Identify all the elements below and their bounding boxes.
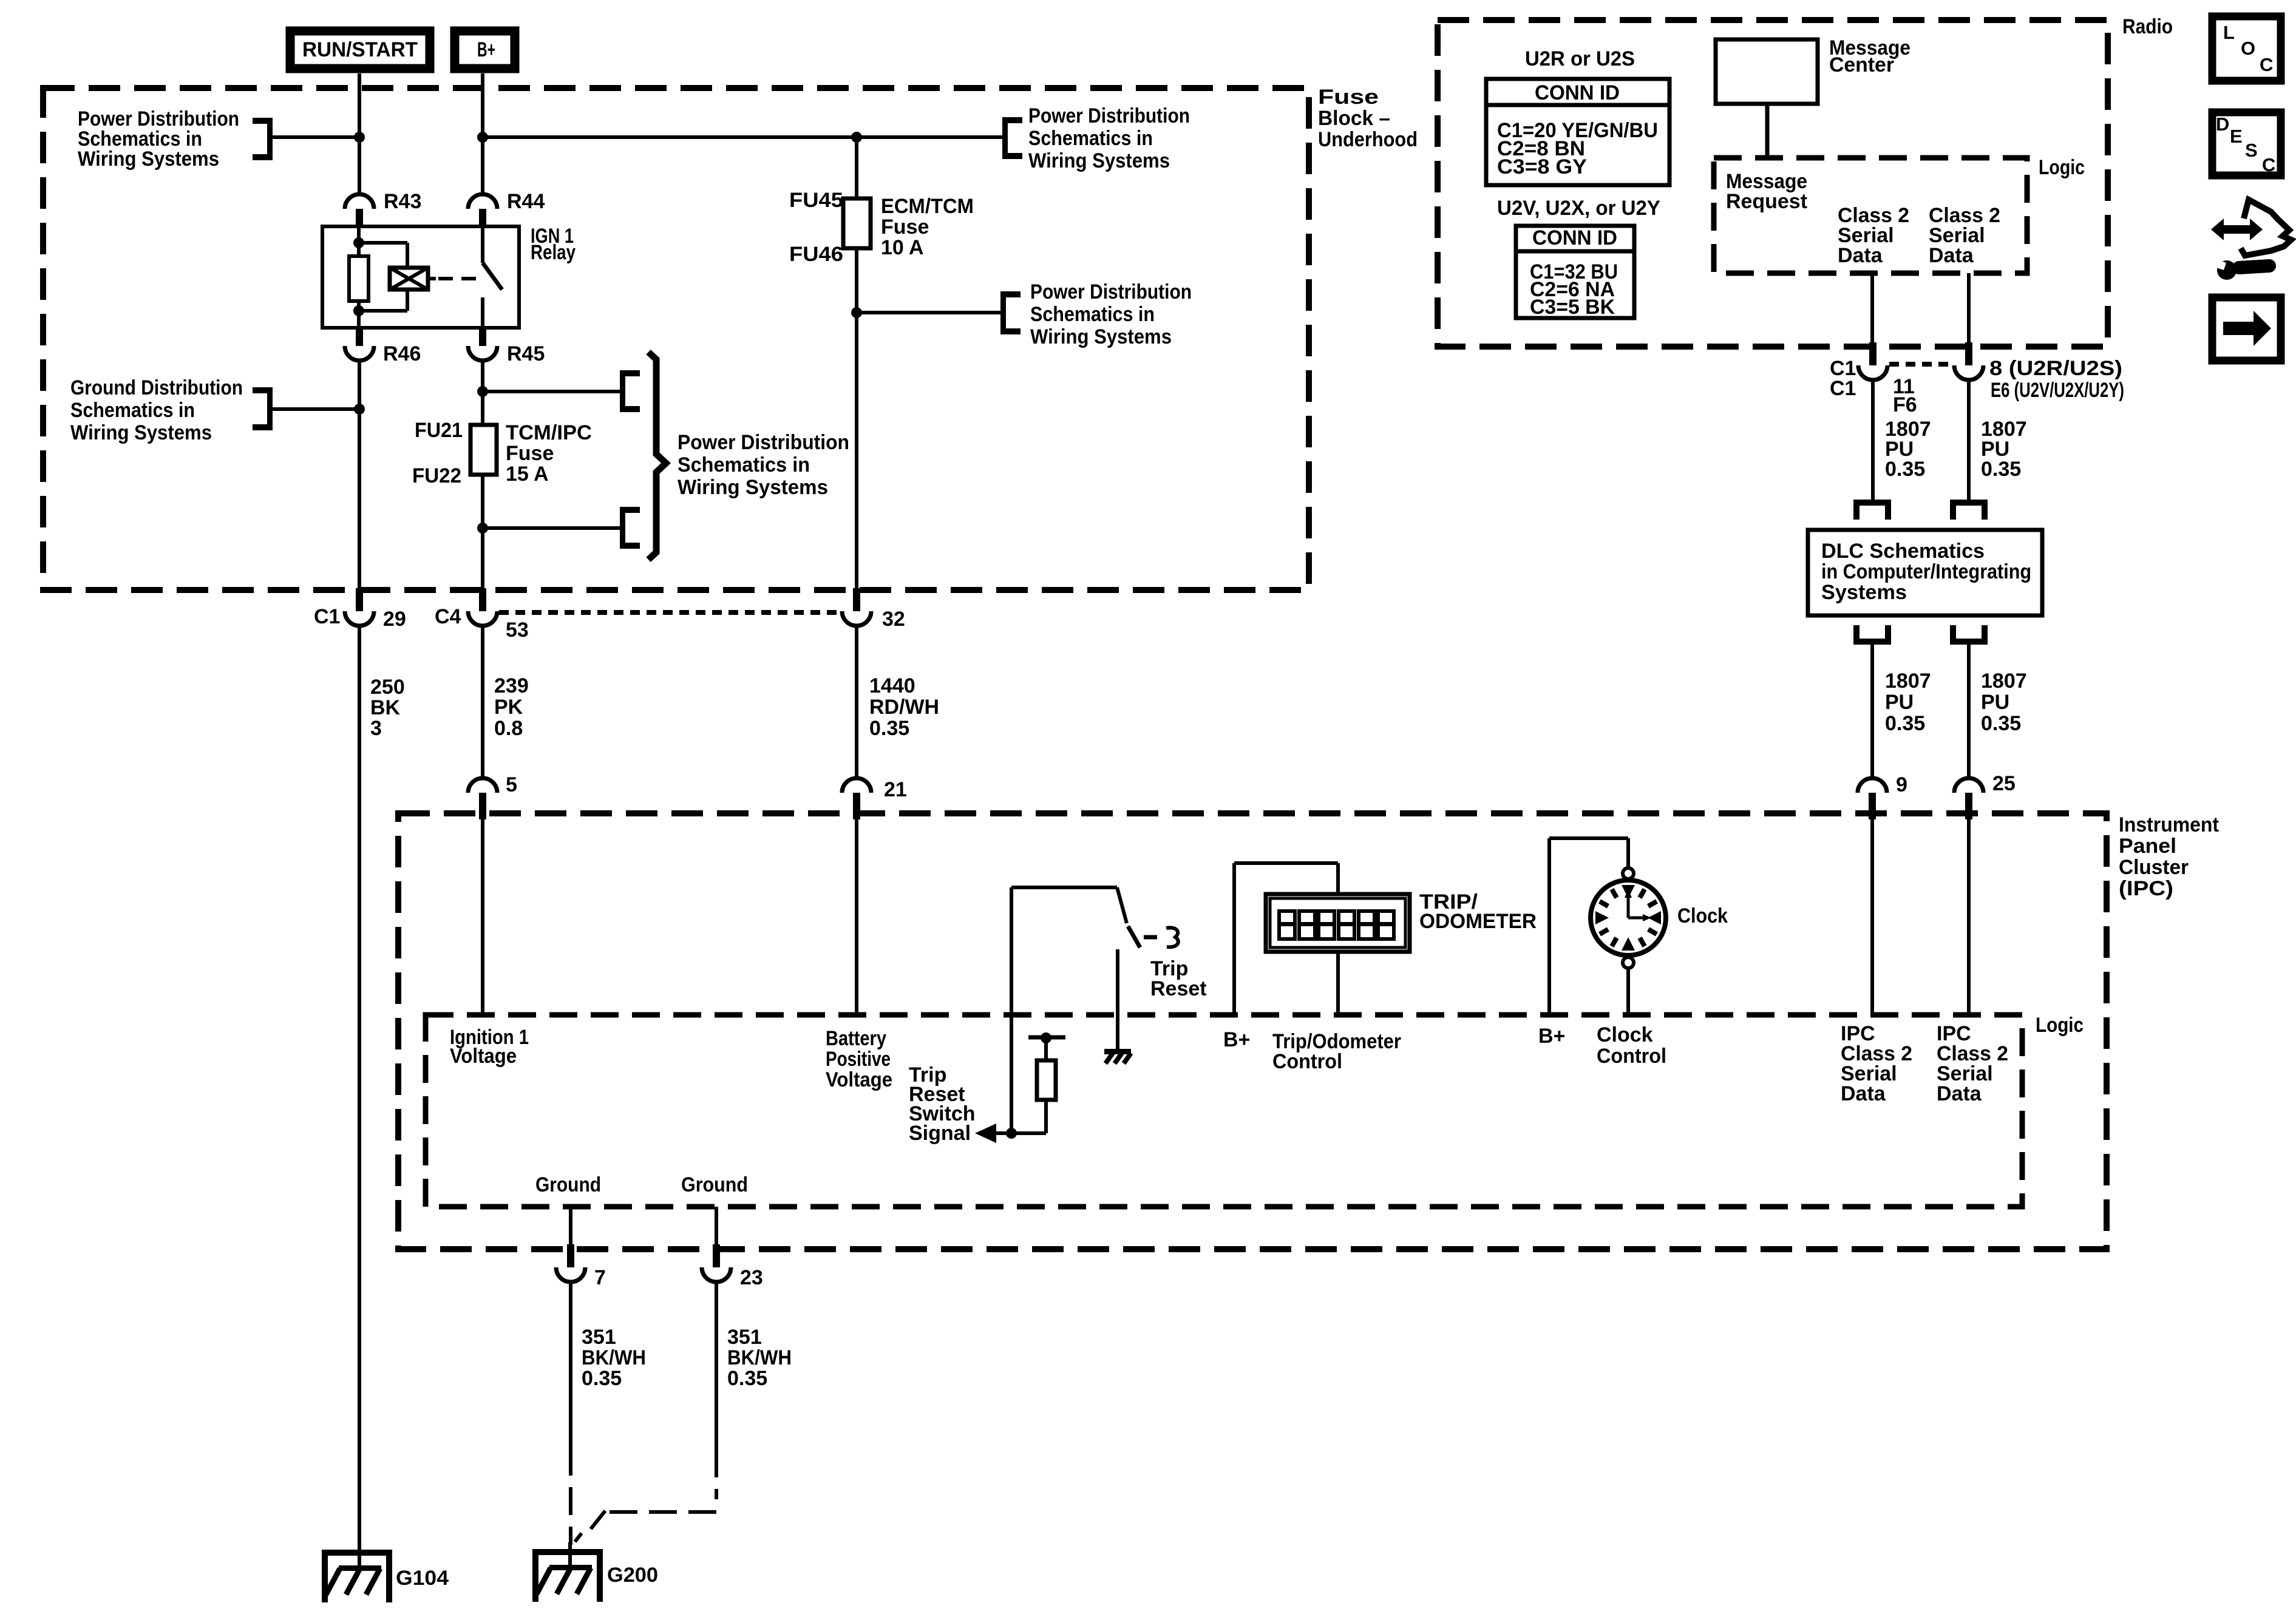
svg-text:239: 239 <box>494 674 529 697</box>
svg-text:5: 5 <box>506 773 517 796</box>
svg-text:B+: B+ <box>477 38 495 61</box>
svg-text:FU22: FU22 <box>412 464 461 487</box>
clock tick triangles <box>1622 885 1635 898</box>
wire class 2 to DLC right <box>1967 380 1971 500</box>
connector R44 <box>468 194 497 209</box>
svg-text:1807: 1807 <box>1885 670 1931 693</box>
svg-text:Request: Request <box>1726 190 1807 213</box>
node FU45 tap <box>851 132 862 143</box>
connector terminal 32 <box>853 588 860 611</box>
ground G200 <box>568 1542 572 1568</box>
svg-text:Data: Data <box>1929 244 1974 267</box>
curly brace power distribution group <box>648 352 666 560</box>
wire to left power distribution bracket <box>272 135 359 139</box>
svg-text:25: 25 <box>1992 772 2016 795</box>
svg-text:Voltage: Voltage <box>450 1045 517 1068</box>
svg-text:0.35: 0.35 <box>727 1367 767 1390</box>
message center box <box>1716 39 1818 104</box>
svg-text:Data: Data <box>1838 244 1883 267</box>
svg-text:Positive: Positive <box>826 1048 891 1071</box>
wire B+ feed trip/odometer <box>1232 863 1236 1015</box>
wire 351 BK/WH 0.35 left <box>569 1282 572 1448</box>
icon wrench <box>2239 266 2269 268</box>
svg-text:0.35: 0.35 <box>582 1367 622 1390</box>
wire to bracket upper right <box>483 390 620 393</box>
svg-text:Panel: Panel <box>2119 835 2176 858</box>
svg-text:1440: 1440 <box>869 674 915 697</box>
svg-text:0.35: 0.35 <box>1981 712 2021 735</box>
arrowhead trip reset switch signal <box>975 1124 996 1143</box>
ground chassis trip reset <box>1104 1049 1131 1054</box>
relay actuation dashed link <box>438 277 477 280</box>
svg-text:Cluster: Cluster <box>2119 856 2189 879</box>
svg-text:D: D <box>2216 114 2229 135</box>
svg-text:FU46: FU46 <box>789 243 843 266</box>
instrument panel cluster dashed box <box>398 813 2107 1249</box>
svg-text:Schematics in: Schematics in <box>70 399 195 422</box>
svg-text:G200: G200 <box>607 1564 658 1587</box>
relay coil branch node top <box>353 237 364 248</box>
svg-text:21: 21 <box>884 778 907 801</box>
svg-text:Block –: Block – <box>1318 107 1390 130</box>
svg-text:351: 351 <box>727 1326 762 1349</box>
wire B+ to relay R44 <box>481 73 484 194</box>
svg-text:ODOMETER: ODOMETER <box>1419 910 1537 933</box>
svg-text:FU21: FU21 <box>415 419 463 442</box>
svg-text:10 A: 10 A <box>881 236 924 259</box>
wire IPC class 2 serial data right <box>1967 817 1971 1015</box>
svg-text:RUN/START: RUN/START <box>302 38 418 61</box>
svg-text:0.35: 0.35 <box>1981 458 2021 481</box>
svg-text:C1: C1 <box>1830 377 1856 400</box>
svg-text:53: 53 <box>506 619 529 642</box>
odometer digit cell 5 <box>1359 911 1374 939</box>
svg-text:R45: R45 <box>507 342 545 365</box>
svg-text:U2R or U2S: U2R or U2S <box>1525 47 1635 70</box>
svg-text:(IPC): (IPC) <box>2119 877 2173 900</box>
radio logic dashed box <box>1714 158 2027 273</box>
wire FU22 down to connector C4 <box>481 475 484 593</box>
svg-text:Systems: Systems <box>1821 581 1907 604</box>
svg-text:Power Distribution: Power Distribution <box>678 431 849 454</box>
clock face <box>1591 880 1666 955</box>
bracket power distribution arm lower <box>620 507 625 549</box>
svg-text:L: L <box>2223 22 2235 43</box>
svg-text:0.35: 0.35 <box>1885 458 1925 481</box>
svg-text:23: 23 <box>740 1266 763 1289</box>
svg-text:Instrument: Instrument <box>2119 813 2219 836</box>
svg-text:0.8: 0.8 <box>494 717 523 740</box>
svg-text:Control: Control <box>1272 1050 1342 1073</box>
svg-text:PU: PU <box>1885 691 1914 714</box>
relay coil wires <box>359 241 407 245</box>
wire RUN/START to relay R43 <box>358 73 361 194</box>
connector C1 terminal 29 <box>356 588 363 611</box>
svg-text:9: 9 <box>1896 773 1907 796</box>
wire trip/odometer control <box>1336 952 1340 1015</box>
svg-text:Center: Center <box>1829 53 1894 76</box>
fuse block underhood dashed box <box>43 88 1309 590</box>
connector R43 <box>345 194 374 209</box>
svg-text:Data: Data <box>1937 1082 1982 1105</box>
wire to ground distribution bracket <box>272 407 359 411</box>
trip reset switch actuator curl <box>1166 927 1178 947</box>
svg-text:PU: PU <box>1981 691 2009 714</box>
svg-text:Reset: Reset <box>1150 977 1207 1000</box>
relay coil branch node bottom <box>353 305 364 316</box>
wire ground pin 7 <box>569 1207 572 1249</box>
svg-text:B+: B+ <box>1538 1025 1565 1048</box>
icon DESC box <box>2212 112 2281 175</box>
bracket left ground distribution <box>267 387 273 430</box>
icon signal squiggle <box>2241 200 2291 256</box>
relay switch contact <box>481 227 484 263</box>
DLC schematics box <box>1808 530 2042 615</box>
svg-text:8 (U2R/U2S): 8 (U2R/U2S) <box>1989 357 2122 380</box>
wire 250 BK 3 to G104 <box>358 624 361 1568</box>
node ground distribution tap <box>354 404 365 415</box>
wire B+ feed to fuse FU45 and right bracket <box>483 135 1002 139</box>
wire R45 to fuse FU21 <box>481 361 484 425</box>
svg-text:Voltage: Voltage <box>826 1068 892 1091</box>
connector R45 <box>479 328 486 346</box>
svg-text:Ground: Ground <box>535 1173 601 1196</box>
svg-text:E6 (U2V/U2X/U2Y): E6 (U2V/U2X/U2Y) <box>1991 379 2124 402</box>
icon right arrow box <box>2212 297 2281 361</box>
svg-text:ECM/TCM: ECM/TCM <box>881 195 974 218</box>
relay IGN 1 box <box>322 226 519 328</box>
connector C1 radio <box>1869 342 1877 365</box>
svg-text:C4: C4 <box>435 605 461 628</box>
svg-text:Wiring Systems: Wiring Systems <box>78 147 219 171</box>
dashed splice path from pin 23 to G200 <box>715 1449 718 1499</box>
connector terminal 9 <box>1858 778 1887 793</box>
connector terminal 23 <box>713 1244 720 1267</box>
bracket right power distribution 1 <box>1002 117 1008 159</box>
power feed box RUN/START <box>290 31 430 69</box>
svg-text:0.35: 0.35 <box>869 717 909 740</box>
svg-text:351: 351 <box>582 1326 616 1349</box>
connector dotted line C4 <box>499 610 841 615</box>
wire message center to logic <box>1765 106 1770 157</box>
svg-text:DLC Schematics: DLC Schematics <box>1821 540 1985 563</box>
wire to bracket power distribution 2 <box>857 311 1000 314</box>
svg-text:Wiring Systems: Wiring Systems <box>1030 325 1172 348</box>
icon bidirectional message arrow <box>2223 225 2250 234</box>
svg-text:7: 7 <box>594 1266 606 1289</box>
conn id table U2V/U2X/U2Y <box>1516 226 1634 318</box>
wire battery positive voltage into logic <box>855 817 858 1015</box>
wire 351 BK/WH 0.35 right <box>715 1282 718 1449</box>
clock hands <box>1627 897 1630 918</box>
svg-text:Logic: Logic <box>2039 156 2085 179</box>
wire DLC to IPC 9 <box>1870 645 1874 778</box>
relay resistor <box>357 227 361 256</box>
svg-text:Data: Data <box>1841 1082 1886 1105</box>
svg-text:C3=5 BK: C3=5 BK <box>1530 296 1615 319</box>
clock top terminal <box>1623 868 1634 879</box>
node power distribution tap on RUN/START wire <box>354 132 365 143</box>
svg-text:E: E <box>2230 126 2243 147</box>
svg-text:Signal: Signal <box>909 1122 971 1145</box>
svg-text:R44: R44 <box>507 190 545 213</box>
wire B+ feed clock <box>1547 838 1551 1015</box>
icon LOC box <box>2212 16 2281 81</box>
IPC logic dashed box <box>426 1015 2022 1207</box>
svg-text:Clock: Clock <box>1597 1023 1653 1046</box>
resistor trip reset pull-up <box>1044 1039 1048 1060</box>
svg-text:250: 250 <box>370 676 405 699</box>
svg-text:C: C <box>2260 54 2273 75</box>
inline connector top left <box>1853 500 1891 506</box>
svg-text:Ground Distribution: Ground Distribution <box>70 376 243 399</box>
svg-text:S: S <box>2245 140 2258 161</box>
wire clock control <box>1626 968 1630 1015</box>
svg-text:Fuse: Fuse <box>506 442 554 465</box>
wire DLC to IPC 25 <box>1967 645 1971 778</box>
svg-text:Ground: Ground <box>681 1173 748 1196</box>
odometer digit cell 6 <box>1378 911 1394 939</box>
svg-text:Battery: Battery <box>826 1027 886 1050</box>
svg-text:Radio: Radio <box>2122 15 2173 38</box>
radio dashed box <box>1438 20 2108 347</box>
svg-text:R46: R46 <box>383 342 421 365</box>
wire trip reset signal with junction <box>1006 1128 1017 1139</box>
odometer digit cell 4 <box>1339 911 1354 939</box>
wire radio class 2 serial data left <box>1870 273 1874 347</box>
wire R46 to ground distribution <box>358 361 361 593</box>
connector 8 radio <box>1965 342 1972 365</box>
clock tick marks <box>1640 889 1645 898</box>
svg-text:Wiring Systems: Wiring Systems <box>678 476 828 499</box>
trip reset switch dashed actuator link <box>1144 935 1158 940</box>
svg-text:Power Distribution: Power Distribution <box>1030 280 1192 303</box>
svg-text:Power Distribution: Power Distribution <box>1028 104 1190 127</box>
bracket right power distribution 2 <box>1000 291 1006 334</box>
odometer digit cell 3 <box>1319 911 1334 939</box>
svg-text:in Computer/Integrating: in Computer/Integrating <box>1821 560 2031 583</box>
trip/odometer inner display <box>1270 898 1405 947</box>
svg-text:Fuse: Fuse <box>881 215 929 239</box>
svg-text:15 A: 15 A <box>506 463 549 486</box>
relay coil box with X <box>390 268 428 290</box>
svg-text:CONN ID: CONN ID <box>1535 81 1620 104</box>
bracket left power distribution <box>267 118 273 160</box>
connector terminal 7 <box>567 1244 574 1267</box>
clock bottom terminal <box>1623 957 1634 968</box>
svg-text:Wiring Systems: Wiring Systems <box>1028 149 1170 172</box>
bracket power distribution arm upper <box>620 370 625 412</box>
svg-text:PK: PK <box>494 696 523 719</box>
svg-text:Schematics in: Schematics in <box>678 453 810 476</box>
trip/odometer display box <box>1266 894 1410 952</box>
svg-text:BK/WH: BK/WH <box>582 1346 646 1369</box>
connector R46 <box>356 328 363 346</box>
svg-text:Wiring Systems: Wiring Systems <box>70 421 212 444</box>
wire radio class 2 serial data right <box>1967 273 1971 347</box>
svg-text:Schematics in: Schematics in <box>1028 127 1153 150</box>
wire 1440 RD/WH 0.35 <box>855 626 858 778</box>
svg-text:Underhood: Underhood <box>1318 128 1418 151</box>
svg-text:Schematics in: Schematics in <box>1030 303 1155 326</box>
connector terminal 21 <box>842 778 871 793</box>
wire FU46 down to connector 32 <box>855 248 858 593</box>
svg-text:C: C <box>2262 154 2275 175</box>
node power distribution tap lower <box>477 523 488 534</box>
odometer digit cell 2 <box>1299 911 1315 939</box>
power feed box B+ <box>455 31 515 69</box>
connector terminal 25 <box>1954 778 1983 793</box>
connector dotted line radio <box>1889 362 1952 367</box>
wire IPC class 2 serial data left <box>1870 817 1874 1015</box>
wire to bracket lower right <box>483 526 620 530</box>
svg-text:Clock: Clock <box>1677 904 1728 927</box>
svg-text:BK/WH: BK/WH <box>727 1346 792 1369</box>
svg-text:Logic: Logic <box>2036 1014 2084 1037</box>
svg-text:RD/WH: RD/WH <box>869 696 939 719</box>
svg-text:29: 29 <box>383 608 406 631</box>
svg-text:Control: Control <box>1597 1045 1666 1068</box>
fuse FU45/FU46 ECM/TCM 10A <box>843 198 871 248</box>
inline connector bottom left <box>1853 639 1891 645</box>
svg-text:C1: C1 <box>314 605 340 628</box>
svg-text:R43: R43 <box>384 190 421 213</box>
svg-text:U2V, U2X, or U2Y: U2V, U2X, or U2Y <box>1497 197 1660 220</box>
trip reset switch blade <box>1128 926 1140 947</box>
inline connector top right <box>1950 500 1988 506</box>
svg-text:FU45: FU45 <box>789 189 843 212</box>
svg-text:Fuse: Fuse <box>1318 86 1379 109</box>
wire trip reset switch to ground <box>1116 949 1119 1049</box>
relay coil stub <box>428 277 436 280</box>
svg-text:TCM/IPC: TCM/IPC <box>506 421 592 444</box>
node power distribution tap upper <box>477 386 488 397</box>
svg-text:O: O <box>2241 38 2255 59</box>
wire trip reset switch feed <box>1010 887 1013 1133</box>
svg-text:C3=8 GY: C3=8 GY <box>1497 155 1587 178</box>
odometer digit cell 1 <box>1279 911 1295 939</box>
svg-text:BK: BK <box>370 696 401 719</box>
connector C4 terminal 53 <box>479 588 486 611</box>
svg-text:B+: B+ <box>1223 1028 1250 1051</box>
wire 239 PK 0.8 <box>481 624 484 778</box>
wire class 2 to DLC left <box>1871 380 1875 500</box>
node B+ distribution tap <box>477 132 488 143</box>
node power distribution tap fu46 <box>851 307 862 318</box>
connector terminal 5 <box>468 778 497 793</box>
svg-text:0.35: 0.35 <box>1885 712 1925 735</box>
svg-text:CONN ID: CONN ID <box>1532 226 1617 249</box>
fuse FU21/FU22 TCM/IPC 15A <box>470 425 497 475</box>
resistor bar with node <box>1028 1036 1065 1040</box>
svg-text:G104: G104 <box>396 1567 449 1590</box>
svg-text:F6: F6 <box>1893 393 1917 416</box>
svg-text:Relay: Relay <box>531 241 576 264</box>
wire ignition 1 voltage into logic <box>481 817 484 1015</box>
ground G104 <box>322 1550 392 1556</box>
svg-text:32: 32 <box>882 608 905 631</box>
svg-text:1807: 1807 <box>1981 670 2027 693</box>
conn id table U2R/U2S <box>1486 79 1669 185</box>
wire ground pin 23 <box>715 1207 718 1249</box>
svg-text:3: 3 <box>370 717 382 740</box>
wire FU45 feed <box>855 137 858 198</box>
inline connector bottom right <box>1950 639 1988 645</box>
